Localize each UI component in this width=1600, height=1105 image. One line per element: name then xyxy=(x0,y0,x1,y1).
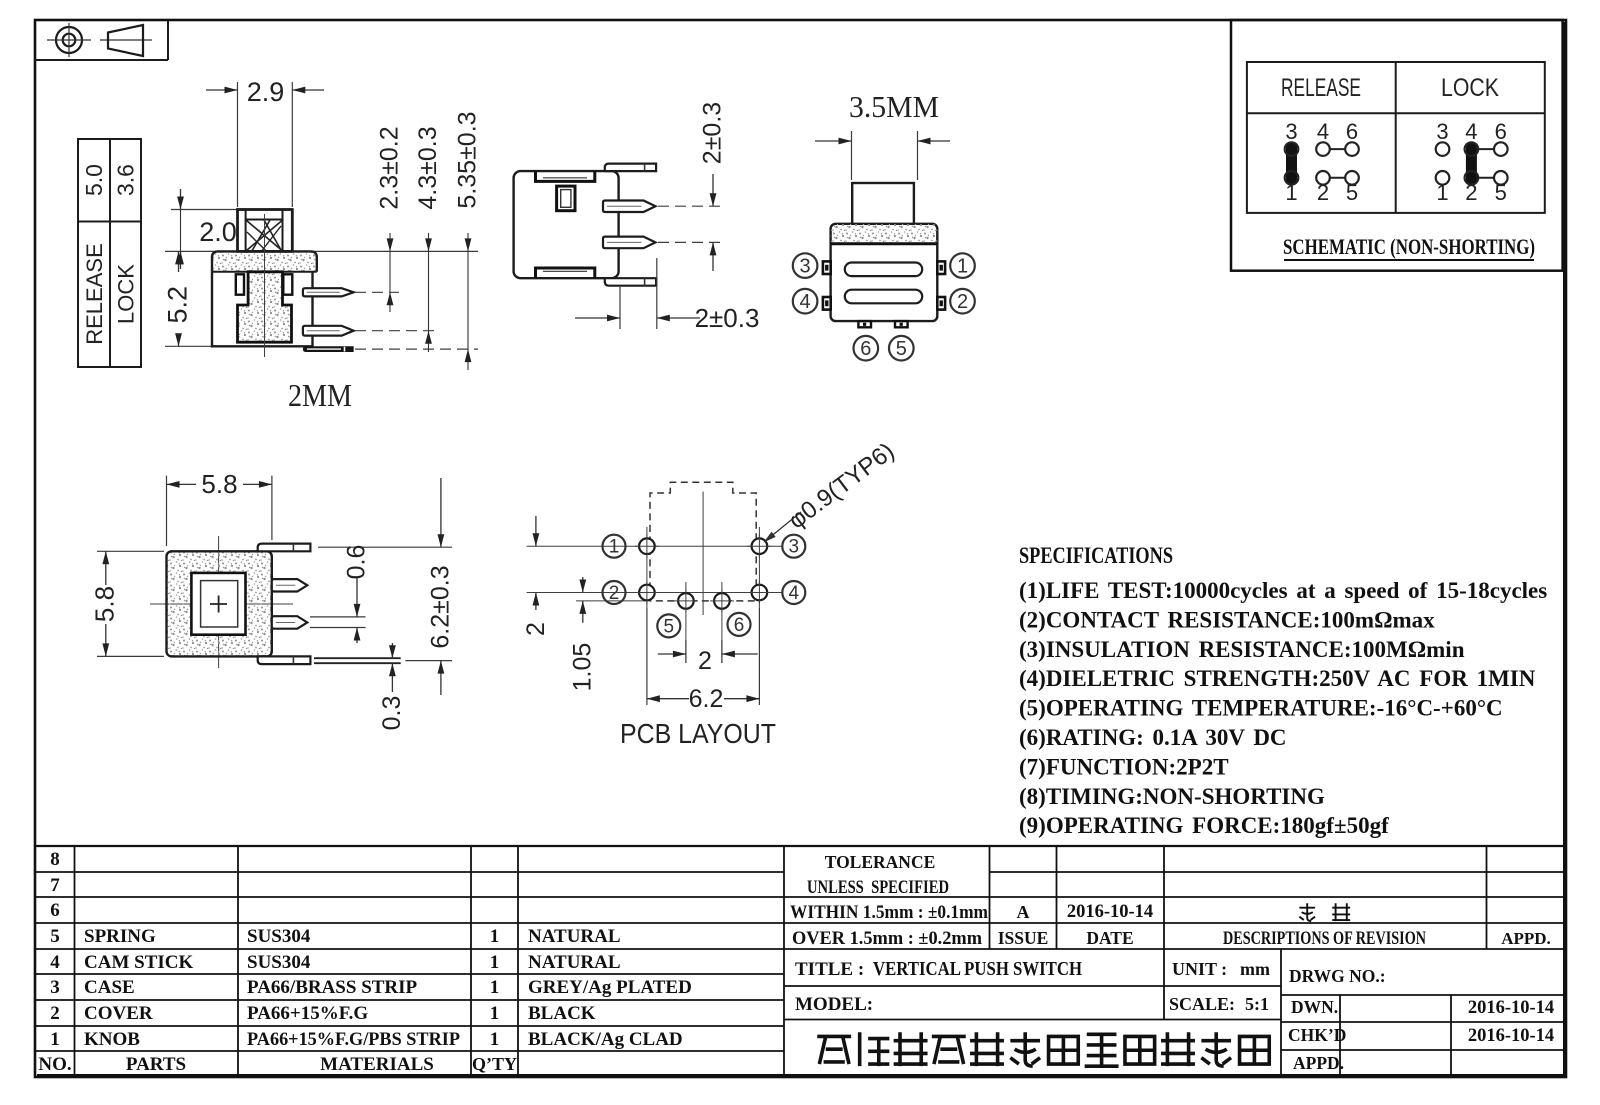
svg-text:KNOB: KNOB xyxy=(84,1029,140,1050)
svg-text:2: 2 xyxy=(522,622,550,636)
svg-text:5.35±0.3: 5.35±0.3 xyxy=(454,111,482,208)
svg-text:CHK’D: CHK’D xyxy=(1288,1025,1346,1045)
svg-text:2016-10-14: 2016-10-14 xyxy=(1468,1026,1554,1046)
svg-text:2.9: 2.9 xyxy=(247,77,285,107)
svg-text:SCALE:: SCALE: xyxy=(1169,994,1235,1014)
svg-text:3: 3 xyxy=(800,256,811,278)
svg-text:5: 5 xyxy=(664,616,675,637)
svg-text:SPRING: SPRING xyxy=(84,926,156,947)
svg-text:4: 4 xyxy=(789,583,800,604)
svg-text:RELEASE: RELEASE xyxy=(82,243,107,345)
svg-text:1: 1 xyxy=(490,1003,500,1024)
svg-text:5.0: 5.0 xyxy=(81,164,107,196)
svg-text:4.3±0.3: 4.3±0.3 xyxy=(414,126,442,209)
svg-text:LOCK: LOCK xyxy=(1441,74,1499,102)
svg-text:BLACK: BLACK xyxy=(528,1003,596,1024)
svg-text:PA66/BRASS STRIP: PA66/BRASS STRIP xyxy=(247,977,418,998)
svg-text:ISSUE: ISSUE xyxy=(998,928,1049,948)
svg-text:3: 3 xyxy=(1436,119,1448,144)
svg-text:5: 5 xyxy=(896,338,907,360)
svg-text:2.0: 2.0 xyxy=(199,217,237,247)
svg-text:6.2: 6.2 xyxy=(689,685,724,713)
svg-text:1: 1 xyxy=(490,1029,500,1050)
svg-text:1: 1 xyxy=(609,537,620,558)
svg-text:APPD.: APPD. xyxy=(1501,929,1551,948)
svg-text:MODEL:: MODEL: xyxy=(795,994,873,1015)
svg-text:7: 7 xyxy=(50,875,60,896)
svg-text:DWN.: DWN. xyxy=(1291,997,1338,1017)
svg-text:GREY/Ag PLATED: GREY/Ag PLATED xyxy=(528,977,692,998)
svg-text:6: 6 xyxy=(1346,119,1358,144)
svg-text:1: 1 xyxy=(957,256,968,278)
svg-text:6: 6 xyxy=(1495,119,1507,144)
svg-text:2: 2 xyxy=(50,1003,60,1024)
svg-text:VERTICAL PUSH SWITCH: VERTICAL PUSH SWITCH xyxy=(873,958,1082,980)
svg-text:2016-10-14: 2016-10-14 xyxy=(1067,902,1153,922)
svg-text:OVER 1.5mm : ±0.2mm: OVER 1.5mm : ±0.2mm xyxy=(792,928,982,949)
svg-text:(5)OPERATING TEMPERATURE:-16°C: (5)OPERATING TEMPERATURE:-16°C-+60°C xyxy=(1019,696,1503,721)
svg-text:(7)FUNCTION:2P2T: (7)FUNCTION:2P2T xyxy=(1019,754,1229,779)
svg-text:3: 3 xyxy=(50,977,60,998)
svg-text:3.6: 3.6 xyxy=(113,164,139,196)
svg-text:2.3±0.2: 2.3±0.2 xyxy=(376,126,404,209)
svg-text:PCB LAYOUT: PCB LAYOUT xyxy=(620,718,776,749)
svg-text:COVER: COVER xyxy=(84,1003,153,1024)
svg-text:1: 1 xyxy=(490,952,500,973)
svg-text:0.6: 0.6 xyxy=(343,545,371,580)
svg-text:PARTS: PARTS xyxy=(126,1054,186,1075)
svg-text:3: 3 xyxy=(1285,119,1297,144)
svg-text:2016-10-14: 2016-10-14 xyxy=(1468,998,1554,1018)
svg-text:LOCK: LOCK xyxy=(114,264,139,324)
svg-text:TITLE :: TITLE : xyxy=(795,959,864,980)
svg-text:(2)CONTACT RESISTANCE:100mΩmax: (2)CONTACT RESISTANCE:100mΩmax xyxy=(1019,607,1435,632)
svg-text:5.8: 5.8 xyxy=(201,469,237,499)
svg-text:6: 6 xyxy=(860,338,871,360)
svg-text:SPECIFICATIONS: SPECIFICATIONS xyxy=(1019,543,1173,568)
svg-text:(3)INSULATION RESISTANCE:100MΩ: (3)INSULATION RESISTANCE:100MΩmin xyxy=(1019,637,1465,662)
svg-text:6: 6 xyxy=(734,615,745,636)
svg-text:TOLERANCE: TOLERANCE xyxy=(825,852,936,872)
svg-text:8: 8 xyxy=(50,849,60,870)
svg-text:1: 1 xyxy=(50,1029,60,1050)
svg-text:SUS304: SUS304 xyxy=(247,926,311,947)
svg-text:DESCRIPTIONS OF REVISION: DESCRIPTIONS OF REVISION xyxy=(1223,928,1426,949)
svg-text:2MM: 2MM xyxy=(288,377,352,413)
svg-text:UNLESS SPECIFIED: UNLESS SPECIFIED xyxy=(807,877,949,898)
svg-text:1.05: 1.05 xyxy=(568,643,596,692)
svg-text:RELEASE: RELEASE xyxy=(1281,74,1361,102)
svg-text:APPD.: APPD. xyxy=(1293,1053,1344,1073)
svg-text:NATURAL: NATURAL xyxy=(528,952,621,973)
svg-text:4: 4 xyxy=(1317,119,1329,144)
svg-text:(1)LIFE TEST:10000cycles at a: (1)LIFE TEST:10000cycles at a speed of 1… xyxy=(1019,578,1547,603)
svg-text:NATURAL: NATURAL xyxy=(528,926,621,947)
svg-text:mm: mm xyxy=(1240,959,1270,979)
svg-text:PA66+15%F.G: PA66+15%F.G xyxy=(247,1003,368,1024)
svg-text:DATE: DATE xyxy=(1086,928,1133,948)
svg-text:A: A xyxy=(1017,902,1030,922)
svg-text:UNIT :: UNIT : xyxy=(1172,959,1227,979)
svg-text:2: 2 xyxy=(609,583,620,604)
svg-text:4: 4 xyxy=(50,952,60,973)
svg-text:4: 4 xyxy=(1465,119,1477,144)
svg-text:3: 3 xyxy=(789,537,800,558)
svg-text:(8)TIMING:NON-SHORTING: (8)TIMING:NON-SHORTING xyxy=(1019,784,1325,809)
svg-text:PA66+15%F.G/PBS STRIP: PA66+15%F.G/PBS STRIP xyxy=(247,1029,460,1050)
svg-text:5: 5 xyxy=(50,926,60,947)
svg-text:BLACK/Ag CLAD: BLACK/Ag CLAD xyxy=(528,1029,683,1050)
svg-text:MATERIALS: MATERIALS xyxy=(320,1054,434,1075)
svg-text:NO.: NO. xyxy=(38,1054,71,1075)
svg-text:CAM STICK: CAM STICK xyxy=(84,952,193,973)
svg-text:6.2±0.3: 6.2±0.3 xyxy=(427,565,455,648)
svg-text:1: 1 xyxy=(490,926,500,947)
svg-text:1: 1 xyxy=(490,977,500,998)
svg-text:3.5MM: 3.5MM xyxy=(849,89,939,124)
svg-text:4: 4 xyxy=(800,291,811,313)
svg-text:2±0.3: 2±0.3 xyxy=(699,102,727,164)
svg-text:WITHIN 1.5mm : ±0.1mm: WITHIN 1.5mm : ±0.1mm xyxy=(790,902,988,923)
svg-text:(4)DIELETRIC STRENGTH:250V AC: (4)DIELETRIC STRENGTH:250V AC FOR 1MIN xyxy=(1019,666,1536,691)
svg-text:2: 2 xyxy=(957,291,968,313)
svg-text:5.2: 5.2 xyxy=(163,286,193,324)
svg-text:Q’TY: Q’TY xyxy=(472,1054,517,1074)
svg-text:0.3: 0.3 xyxy=(378,696,406,731)
svg-text:DRWG NO.:: DRWG NO.: xyxy=(1289,966,1386,986)
svg-text:5.8: 5.8 xyxy=(90,586,120,622)
svg-text:(6)RATING: 0.1A 30V DC: (6)RATING: 0.1A 30V DC xyxy=(1019,725,1287,750)
svg-text:2±0.3: 2±0.3 xyxy=(695,303,760,333)
svg-text:2: 2 xyxy=(698,647,712,675)
svg-text:CASE: CASE xyxy=(84,977,135,998)
svg-text:SUS304: SUS304 xyxy=(247,952,311,973)
svg-text:6: 6 xyxy=(50,900,60,921)
svg-text:5:1: 5:1 xyxy=(1245,994,1269,1014)
svg-text:SCHEMATIC (NON-SHORTING): SCHEMATIC (NON-SHORTING) xyxy=(1283,234,1535,259)
svg-text:(9)OPERATING FORCE:180gf±50gf: (9)OPERATING FORCE:180gf±50gf xyxy=(1019,813,1389,838)
